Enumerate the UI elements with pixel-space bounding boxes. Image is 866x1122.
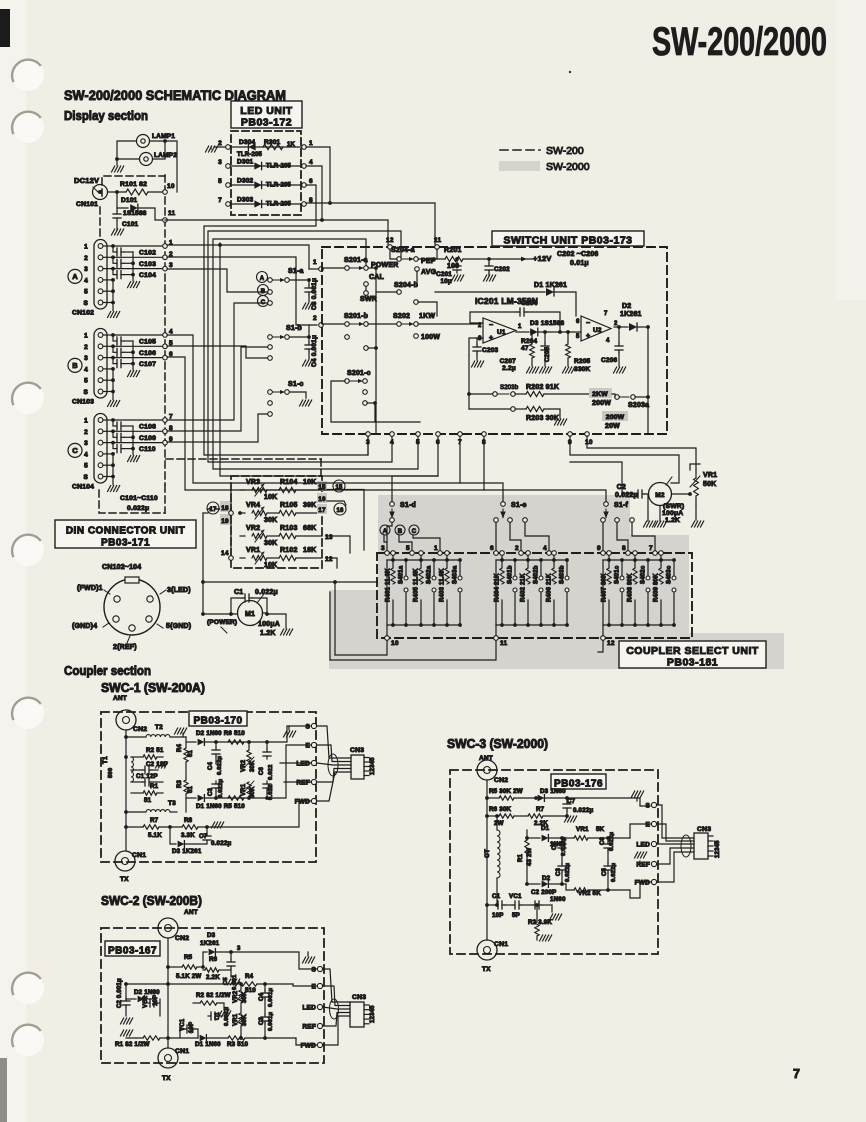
capacitor C101 <box>116 208 118 211</box>
wire CAL node down <box>365 287 367 291</box>
capacitor C103 <box>103 256 113 258</box>
pin S CN104 <box>98 474 103 479</box>
pin 18 grey <box>220 501 230 512</box>
display dashed border lower right <box>166 458 321 460</box>
svg-text:VR2: VR2 <box>246 525 260 532</box>
svg-text:51: 51 <box>188 749 194 757</box>
svg-text:1: 1 <box>309 140 313 147</box>
svg-text:S401b: S401b <box>508 565 514 584</box>
svg-text:S1-f: S1-f <box>614 502 628 509</box>
svg-text:AVG: AVG <box>421 269 437 276</box>
svg-text:68K: 68K <box>303 525 316 532</box>
wire C2 riser <box>570 462 622 494</box>
svg-text:U1: U1 <box>497 329 506 336</box>
svg-text:REF: REF <box>296 780 310 787</box>
svg-text:S: S <box>645 803 650 810</box>
speck <box>569 71 571 73</box>
svg-text:4: 4 <box>84 451 88 458</box>
svg-text:R404 21K: R404 21K <box>495 573 501 602</box>
svg-text:C107: C107 <box>139 361 156 368</box>
wire R4 row to E <box>293 984 318 986</box>
svg-text:ANT: ANT <box>113 695 127 702</box>
svg-text:7: 7 <box>218 197 222 204</box>
svg-text:D303: D303 <box>237 197 254 204</box>
svg-text:1K261: 1K261 <box>620 311 642 318</box>
svg-text:5: 5 <box>576 334 580 340</box>
wire pin13 into grey <box>327 536 350 553</box>
switch S403b <box>565 576 569 580</box>
wire U1 pin3 <box>469 338 483 355</box>
svg-text:C: C <box>412 529 417 535</box>
svg-text:2: 2 <box>84 255 88 262</box>
S1-b alt contacts <box>268 345 273 350</box>
circled 17 dashed <box>207 502 219 514</box>
PB03-170 label box <box>189 711 247 726</box>
pin 17 grey <box>317 504 327 514</box>
wire pin16 to circled16 <box>327 501 346 505</box>
svg-text:S402a: S402a <box>427 565 433 584</box>
svg-text:R7: R7 <box>536 806 545 813</box>
svg-text:M1: M1 <box>245 611 255 618</box>
svg-text:REF: REF <box>636 862 650 869</box>
pin 5 CN103 <box>98 378 103 383</box>
svg-text:CAL: CAL <box>369 274 385 281</box>
wire ANT-TX vertical swc2 <box>167 938 169 1048</box>
svg-text:SWC-2 (SW-200B): SWC-2 (SW-200B) <box>101 894 202 908</box>
svg-text:VR1: VR1 <box>246 547 260 554</box>
wire pin1 CN102 to node 1 <box>113 245 165 247</box>
svg-text:S403c: S403c <box>667 565 673 584</box>
svg-text:3: 3 <box>169 262 173 269</box>
svg-text:DIN CONNECTOR UNIT: DIN CONNECTOR UNIT <box>66 525 185 536</box>
coupler top pin 6 <box>494 551 499 556</box>
VR left bus <box>230 490 232 558</box>
svg-text:D3 1K261: D3 1K261 <box>172 848 202 855</box>
svg-text:12345: 12345 <box>370 1005 376 1023</box>
svg-text:R101 82: R101 82 <box>120 181 147 188</box>
svg-text:C4 0.001μ: C4 0.001μ <box>311 335 318 367</box>
svg-text:S201-c: S201-c <box>347 370 371 377</box>
svg-text:PB03-172: PB03-172 <box>241 117 292 129</box>
svg-text:4: 4 <box>606 338 610 344</box>
svg-text:2W: 2W <box>494 820 504 827</box>
svg-text:VR4: VR4 <box>246 502 260 509</box>
svg-text:VR1: VR1 <box>576 826 589 833</box>
svg-text:0.022μ: 0.022μ <box>217 755 223 775</box>
pot VR1 30K <box>247 782 251 796</box>
wire to S swc3 <box>567 798 650 806</box>
svg-text:17: 17 <box>209 507 217 513</box>
pin 3 CN102 <box>98 266 103 271</box>
svg-text:SWC-1 (SW-200A): SWC-1 (SW-200A) <box>101 681 205 695</box>
wire S1-e contacts to pins <box>495 523 497 551</box>
svg-text:R202 91K: R202 91K <box>526 384 559 391</box>
svg-text:CN1: CN1 <box>494 941 508 948</box>
svg-text:3: 3 <box>84 355 88 362</box>
svg-text:2: 2 <box>84 429 88 436</box>
capacitor C102 <box>103 245 113 247</box>
SWC-3 dashed outline <box>450 770 658 954</box>
svg-text:R8: R8 <box>184 817 193 824</box>
switch S401b <box>513 576 517 580</box>
wire pin2 CN104 to node 8 <box>113 430 165 432</box>
wire pins 4-S common <box>103 368 113 370</box>
svg-text:5: 5 <box>218 178 222 185</box>
svg-text:LED: LED <box>302 1005 316 1012</box>
pin 1 CN102 <box>98 244 103 249</box>
binder registration bar top left <box>0 9 10 47</box>
coupler group rail <box>386 560 388 625</box>
binder bar bottom left <box>0 1058 7 1122</box>
svg-text:200W: 200W <box>592 400 611 407</box>
svg-text:R204: R204 <box>521 338 538 345</box>
coupler group bottom rail <box>603 624 674 626</box>
svg-text:C101~C110: C101~C110 <box>120 495 158 502</box>
svg-text:0.022: 0.022 <box>268 764 274 780</box>
svg-text:R401 11.6K: R401 11.6K <box>386 568 392 602</box>
svg-text:5: 5 <box>84 378 88 385</box>
svg-text:2: 2 <box>515 545 519 552</box>
svg-text:18: 18 <box>221 505 229 512</box>
svg-text:7: 7 <box>793 1067 800 1081</box>
svg-text:REF: REF <box>302 1024 316 1031</box>
svg-text:S204-b: S204-b <box>394 282 418 289</box>
svg-text:S402b: S402b <box>534 565 540 584</box>
capacitor C106 <box>103 345 113 347</box>
svg-text:(GND)4: (GND)4 <box>72 623 97 630</box>
capacitor C6 <box>266 749 268 752</box>
svg-text:R4: R4 <box>245 973 254 980</box>
svg-text:CN2: CN2 <box>133 726 147 733</box>
capacitor C4 vertical <box>215 747 217 750</box>
S1-e contacts <box>494 518 499 523</box>
wire R8 to FWD <box>216 801 312 827</box>
ground lamps <box>112 166 124 172</box>
LED UNIT PB03-172 label box <box>231 101 302 128</box>
wire 12 to S204-a <box>390 249 397 259</box>
svg-text:R405 11.6K: R405 11.6K <box>414 568 420 602</box>
svg-text:1: 1 <box>518 324 522 330</box>
svg-text:4: 4 <box>84 277 88 284</box>
LED row D301 <box>231 165 301 167</box>
pin S CN102 <box>98 300 103 305</box>
svg-text:500: 500 <box>108 768 114 778</box>
svg-text:3: 3 <box>381 545 385 552</box>
COUPLER SELECT UNIT label box <box>619 641 766 668</box>
binder hole <box>12 1024 44 1056</box>
svg-text:16: 16 <box>318 496 326 503</box>
svg-text:S: S <box>83 389 88 396</box>
node 11 top <box>435 245 440 250</box>
svg-text:TLR-205: TLR-205 <box>266 164 292 170</box>
wire grey area left exits <box>334 582 336 655</box>
wire to switch pin11 <box>330 203 435 245</box>
switch R203 30K row <box>511 407 516 412</box>
svg-text:S201-b: S201-b <box>344 313 368 320</box>
wire connector C7 to S1-a contact C <box>167 303 268 420</box>
svg-text:D302: D302 <box>237 178 254 185</box>
wire lamps left leg <box>117 141 137 165</box>
resistor R403 <box>445 551 450 556</box>
wire CN101 to R101 <box>108 191 126 193</box>
pin S CN103 <box>98 389 103 394</box>
wire pin1 CN103 to node 4 <box>113 334 165 336</box>
svg-text:S401a: S401a <box>399 565 405 584</box>
connector CN103 body <box>94 329 107 399</box>
svg-text:10K: 10K <box>264 494 277 501</box>
coupler group top rail <box>496 559 567 561</box>
svg-text:1: 1 <box>84 333 88 340</box>
connector CN104 body <box>94 414 107 484</box>
svg-text:CN1: CN1 <box>132 852 146 859</box>
wire pin10 to VR1 <box>587 436 696 470</box>
wire connector B4 to weave S1-e <box>167 335 460 483</box>
svg-text:30K: 30K <box>264 517 277 524</box>
svg-text:SWC-3 (SW-2000): SWC-3 (SW-2000) <box>447 737 548 751</box>
label 100W <box>414 334 419 339</box>
nodes S E LED REF FWD swc1 <box>311 723 316 728</box>
svg-text:R6 30K: R6 30K <box>489 806 512 813</box>
svg-text:18K: 18K <box>303 547 316 554</box>
wire PEP branch <box>416 271 418 285</box>
lamp LAMP1 <box>137 135 150 148</box>
wire pin2 CN102 to node 2 <box>113 256 165 258</box>
svg-text:R5 30K 2W: R5 30K 2W <box>489 788 523 795</box>
jack CN2 SWC-2 <box>158 918 178 938</box>
svg-text:(POWER): (POWER) <box>207 619 237 626</box>
svg-text:14: 14 <box>221 550 229 557</box>
svg-text:0.022μ: 0.022μ <box>127 505 149 512</box>
svg-text:0.001μ: 0.001μ <box>224 1006 230 1026</box>
wire 11 to R201 <box>436 249 438 259</box>
svg-text:D101: D101 <box>121 197 138 204</box>
svg-text:3: 3 <box>237 946 241 952</box>
switch S401a <box>404 576 408 580</box>
svg-text:0.022μ: 0.022μ <box>211 840 231 847</box>
svg-text:C104: C104 <box>139 272 156 279</box>
svg-text:(FWD)1: (FWD)1 <box>77 585 103 592</box>
dashed stub to pins 17-19 <box>208 508 231 510</box>
svg-text:S1-d: S1-d <box>400 502 416 509</box>
svg-text:C201: C201 <box>436 271 452 278</box>
wire LED pin6 hook <box>204 185 368 455</box>
DIN CONNECTOR UNIT PB03-171 label box <box>55 520 196 548</box>
resistor R404 <box>500 551 505 556</box>
capacitor C107 <box>103 357 113 359</box>
wire pin15 into grey <box>327 490 364 551</box>
svg-text:C2 0.001μ: C2 0.001μ <box>117 978 123 1008</box>
wires to CN3 swc2 <box>323 1007 351 1009</box>
capacitor C201 10u <box>455 257 459 261</box>
pin 3 CN103 <box>98 355 103 360</box>
svg-text:TX: TX <box>120 876 129 883</box>
svg-text:A: A <box>260 276 265 282</box>
resistor R401 <box>391 551 396 556</box>
wire S1-f contacts to pins <box>602 523 604 551</box>
svg-text:C5: C5 <box>602 867 608 876</box>
ground VR1 <box>695 505 697 520</box>
svg-text:SW-2000: SW-2000 <box>546 161 590 173</box>
svg-text:3: 3 <box>218 159 222 166</box>
svg-text:4: 4 <box>543 545 547 552</box>
svg-text:1: 1 <box>84 418 88 425</box>
circled 15 dashed <box>333 480 345 492</box>
svg-text:R402 21K: R402 21K <box>521 573 527 602</box>
svg-text:10: 10 <box>391 640 399 647</box>
wire node2 riser <box>167 257 317 325</box>
svg-text:S201-a: S201-a <box>344 257 368 264</box>
S201-c alt contacts <box>363 390 368 395</box>
svg-text:C108: C108 <box>139 424 156 431</box>
wire to meter M1 <box>203 513 237 614</box>
svg-text:R1: R1 <box>150 783 159 790</box>
svg-text:C: C <box>261 300 266 306</box>
coupler top pin 7 <box>653 551 658 556</box>
node 11 <box>163 218 168 223</box>
svg-text:1: 1 <box>434 545 438 552</box>
wire pins 4-S common <box>103 279 113 281</box>
svg-text:R105: R105 <box>280 502 298 509</box>
ground C4 <box>308 351 310 359</box>
wire caps to ground <box>132 341 134 370</box>
grey 2KW box <box>589 388 612 398</box>
svg-text:3(LED): 3(LED) <box>167 587 191 594</box>
wire FWD row swc2 <box>296 1038 318 1045</box>
svg-text:D2: D2 <box>542 875 551 882</box>
wire pin3 stub <box>367 436 369 455</box>
svg-text:ANT: ANT <box>184 909 198 916</box>
svg-text:R409 80K: R409 80K <box>654 573 660 602</box>
PB03-176 label box <box>551 774 606 789</box>
svg-text:D3: D3 <box>207 932 216 939</box>
pot VR2 30K <box>247 750 251 764</box>
svg-text:M2: M2 <box>655 492 665 499</box>
VR unit dashed outline <box>231 476 322 568</box>
svg-text:TX: TX <box>482 966 491 973</box>
svg-text:U2: U2 <box>593 327 602 334</box>
wire M2 to C2 <box>672 493 691 495</box>
svg-text:R205: R205 <box>574 358 591 365</box>
svg-text:R403 11.6K: R403 11.6K <box>440 568 446 602</box>
meter M2 <box>649 483 672 506</box>
svg-text:S401c: S401c <box>615 565 621 584</box>
svg-text:R1: R1 <box>518 853 524 862</box>
svg-text:5(GND): 5(GND) <box>166 623 191 630</box>
svg-text:3.3K: 3.3K <box>181 832 195 839</box>
wire pin1 CN104 to node 7 <box>113 419 165 421</box>
capacitor C108 <box>103 419 113 421</box>
wire row 231 to S204a <box>208 231 401 462</box>
svg-text:TLR-205: TLR-205 <box>266 183 292 189</box>
op-amp U1 <box>483 318 516 343</box>
S1-f contacts <box>601 518 606 523</box>
svg-text:19: 19 <box>221 518 229 525</box>
S1-c alt contacts <box>268 401 273 406</box>
capacitor C4 0.001u <box>290 336 310 338</box>
svg-text:5K: 5K <box>596 826 605 833</box>
svg-text:2: 2 <box>84 344 88 351</box>
svg-text:S403a: S403a <box>453 565 459 584</box>
wires to S E nodes <box>267 726 310 742</box>
wire S1-d contacts to pins <box>387 523 392 551</box>
svg-text:C3: C3 <box>556 867 562 876</box>
ground C5 swc2 <box>230 968 232 977</box>
svg-text:C2 200P: C2 200P <box>531 889 556 896</box>
svg-text:7: 7 <box>649 545 653 552</box>
ground C2 swc2 <box>121 1018 133 1024</box>
svg-text:5.1K 2W: 5.1K 2W <box>176 973 201 980</box>
svg-text:PB03-170: PB03-170 <box>193 716 242 727</box>
svg-text:6: 6 <box>309 178 313 185</box>
wire LED node <box>317 763 352 765</box>
svg-text:LAMP1: LAMP1 <box>152 133 175 140</box>
svg-text:0.01μ: 0.01μ <box>570 260 589 267</box>
svg-text:R407 80K: R407 80K <box>602 573 608 602</box>
resistor R406 <box>552 551 557 556</box>
svg-text:100μA: 100μA <box>258 621 280 628</box>
coupler group bottom rail <box>496 624 567 626</box>
circled 16 dashed <box>334 503 346 515</box>
svg-text:8: 8 <box>622 545 626 552</box>
svg-text:SW-200: SW-200 <box>546 145 584 157</box>
svg-text:2: 2 <box>313 315 317 322</box>
svg-text:PB03-171: PB03-171 <box>101 538 150 549</box>
pin 16 grey <box>317 493 327 503</box>
svg-text:3: 3 <box>84 440 88 447</box>
capacitor C105 <box>103 334 113 336</box>
binder hole <box>12 111 44 143</box>
svg-text:C101: C101 <box>122 221 139 228</box>
svg-text:B: B <box>398 529 403 535</box>
svg-text:C1: C1 <box>234 589 243 596</box>
wire bottom exits coupler <box>335 640 387 655</box>
svg-text:12: 12 <box>607 640 615 647</box>
coupler group top rail <box>387 559 460 561</box>
wire node 11 row <box>165 219 322 221</box>
svg-text:A: A <box>72 272 78 281</box>
wire REF stub <box>284 781 312 783</box>
svg-text:2.2K: 2.2K <box>206 974 220 981</box>
switch S401c <box>620 576 624 580</box>
wire U2 out down <box>647 327 649 397</box>
nodes S E LED REF FWD swc3 <box>651 802 656 807</box>
svg-text:C1: C1 <box>492 893 501 900</box>
display unit dashed border top <box>102 176 165 196</box>
svg-text:R102: R102 <box>280 547 298 554</box>
wire connector B5 to S1-b contact <box>167 346 268 358</box>
DIN connector face <box>104 579 160 635</box>
pin 4 CN104 <box>98 452 103 457</box>
switch S402b <box>539 576 543 580</box>
S201-b alt contacts <box>345 335 350 340</box>
svg-text:E: E <box>311 984 316 991</box>
wire caps to ground <box>132 252 134 281</box>
resistor R205 330K <box>566 330 570 334</box>
node 12 top <box>388 245 393 250</box>
display unit dashed border left <box>99 207 101 237</box>
svg-text:C102: C102 <box>139 250 156 257</box>
svg-text:11: 11 <box>168 210 175 217</box>
resistor R407 <box>607 551 612 556</box>
binder hole <box>12 59 44 91</box>
svg-text:T3: T3 <box>168 800 176 807</box>
pin 1 CN104 <box>98 418 103 423</box>
switch S402c <box>646 576 650 580</box>
svg-text:S1-e: S1-e <box>511 502 527 509</box>
svg-text:1K261: 1K261 <box>200 940 220 947</box>
binder hole <box>12 382 44 414</box>
binder hole <box>12 697 44 729</box>
